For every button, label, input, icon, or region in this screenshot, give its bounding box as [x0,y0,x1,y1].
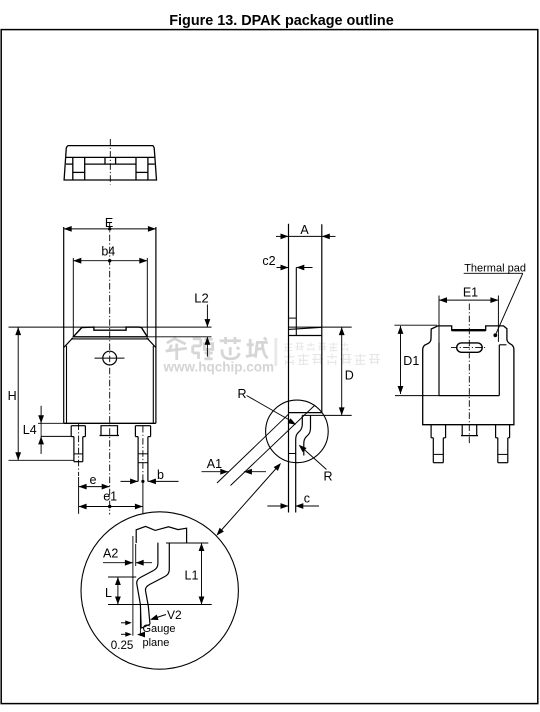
label V2 [150,608,182,622]
svg-text:e: e [90,473,97,487]
svg-text:A1: A1 [207,457,222,471]
svg-text:c2: c2 [262,254,275,268]
dim E1 [439,285,498,342]
thermal pad label [464,262,526,337]
dim c [267,492,319,509]
svg-text:c: c [304,492,310,506]
top view center line [109,139,111,185]
svg-text:e1: e1 [103,490,117,504]
svg-text:L: L [105,586,112,600]
svg-text:Thermal pad: Thermal pad [464,262,526,274]
dim D1 [394,325,439,395]
dim e1 [79,490,143,510]
label R top [238,387,297,425]
dim A [276,223,336,240]
detail circle small [266,400,329,463]
front view center line [109,223,111,515]
dim b4 [73,244,147,336]
dim c2 [262,254,312,270]
svg-text:Figure 13. DPAK package outlin: Figure 13. DPAK package outline [169,13,393,29]
dim L1 [166,543,208,605]
back view right lead [496,425,510,463]
dim L2 [148,291,212,357]
front view right lead [135,426,150,482]
dim 0.25 [111,605,141,652]
svg-text:0.25: 0.25 [111,639,134,652]
front view body [64,227,156,423]
svg-text:Gauge: Gauge [143,623,176,635]
svg-text:A: A [300,223,309,237]
dim E [64,216,156,232]
svg-text:H: H [8,389,17,403]
dim e [79,473,110,490]
detail seating plane [108,604,212,606]
label R bottom [299,445,333,484]
dim L4 [23,406,71,454]
front view mounting hole [95,351,125,365]
back view outline [423,326,514,425]
svg-text:b4: b4 [101,244,115,258]
svg-text:A2: A2 [103,547,118,561]
figure title [169,13,393,29]
back view center lead [461,425,478,436]
top view center recess and feet [66,157,155,180]
dim L [105,577,136,605]
right lead center line [142,426,144,513]
svg-text:plane: plane [143,637,170,649]
svg-text:E1: E1 [463,285,478,299]
svg-text:V2: V2 [167,608,182,622]
dim b [121,468,179,484]
top view outline [64,146,156,180]
svg-text:D: D [345,368,354,382]
front view left lead [71,426,85,462]
back view center line [468,304,470,445]
svg-text:L4: L4 [23,423,37,437]
svg-text:L1: L1 [185,569,199,583]
side view lead bend [289,415,311,512]
dim D [289,327,354,415]
left lead center line [78,424,80,514]
back view thermal pad [439,342,507,395]
front view tab [73,327,147,337]
detail lead [137,543,170,629]
watermark hqchip [163,337,381,375]
back view left lead [431,425,446,463]
side view profile [289,224,322,513]
svg-text:D1: D1 [403,354,419,368]
svg-text:www.hqchip.com: www.hqchip.com [163,360,275,375]
svg-text:b: b [157,468,164,482]
dim A1 [202,405,316,486]
gauge plane label [137,623,176,649]
svg-text:L2: L2 [194,291,208,306]
dim A2 [103,547,152,566]
front view center lead [100,426,120,436]
dim H [8,327,212,460]
detail circle large [81,512,238,669]
detail gauge line [133,536,136,636]
back view slot [451,343,486,352]
svg-text:R: R [238,387,247,401]
detail leader arrow [217,463,282,536]
svg-text:R: R [324,470,333,484]
detail body fragment [136,526,186,543]
